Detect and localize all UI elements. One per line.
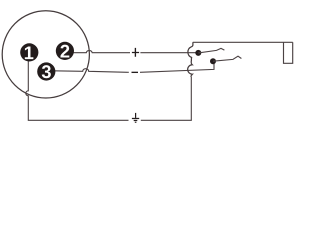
jack socket left contact boundary (tip/ring arcs) [188,42,193,77]
XLR connector shell circle [2,11,89,98]
ring spring contact [213,56,241,61]
tip contact dot [195,50,201,56]
pin 2 [56,42,74,60]
wire from pin 3 (cold) with hop over shell [53,61,214,72]
plus symbol [132,48,139,57]
tip spring contact [198,48,224,53]
earth ground symbol [132,113,139,123]
ground wire right segment to jack sleeve [141,77,192,120]
minus symbol [132,71,139,73]
wire from pin 1 (shield) down with hop over shell [26,56,129,120]
ring contact dot [210,58,216,64]
pin 3 [37,62,55,80]
jack sleeve top rail [193,41,293,43]
jack body rectangle [284,42,293,63]
wire from pin 2 (hot, +) with hop over shell [64,51,198,53]
pin 1 [20,43,38,61]
